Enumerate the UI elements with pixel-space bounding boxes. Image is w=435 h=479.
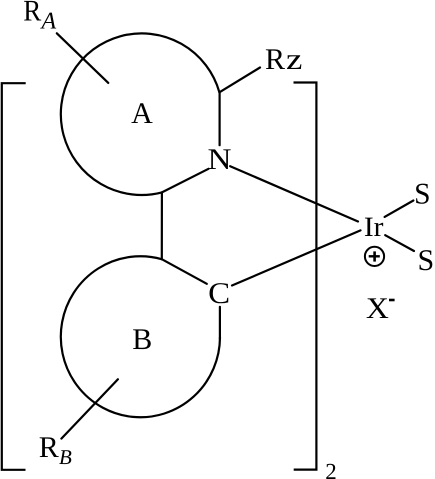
svg-text:A: A: [131, 97, 153, 130]
svg-text:S: S: [417, 244, 434, 277]
svg-text:B: B: [132, 323, 152, 356]
svg-text:S: S: [414, 178, 430, 211]
svg-text:R: R: [23, 0, 41, 28]
svg-text:A: A: [40, 9, 57, 35]
svg-text:z: z: [286, 43, 302, 76]
svg-text:C: C: [208, 277, 230, 310]
svg-text:Ir: Ir: [364, 212, 384, 243]
svg-text:R: R: [265, 43, 285, 76]
svg-text:B: B: [59, 445, 72, 469]
svg-text:N: N: [208, 143, 232, 176]
svg-text:X: X: [366, 292, 389, 325]
svg-text:2: 2: [325, 459, 337, 479]
svg-text:R: R: [39, 431, 59, 464]
